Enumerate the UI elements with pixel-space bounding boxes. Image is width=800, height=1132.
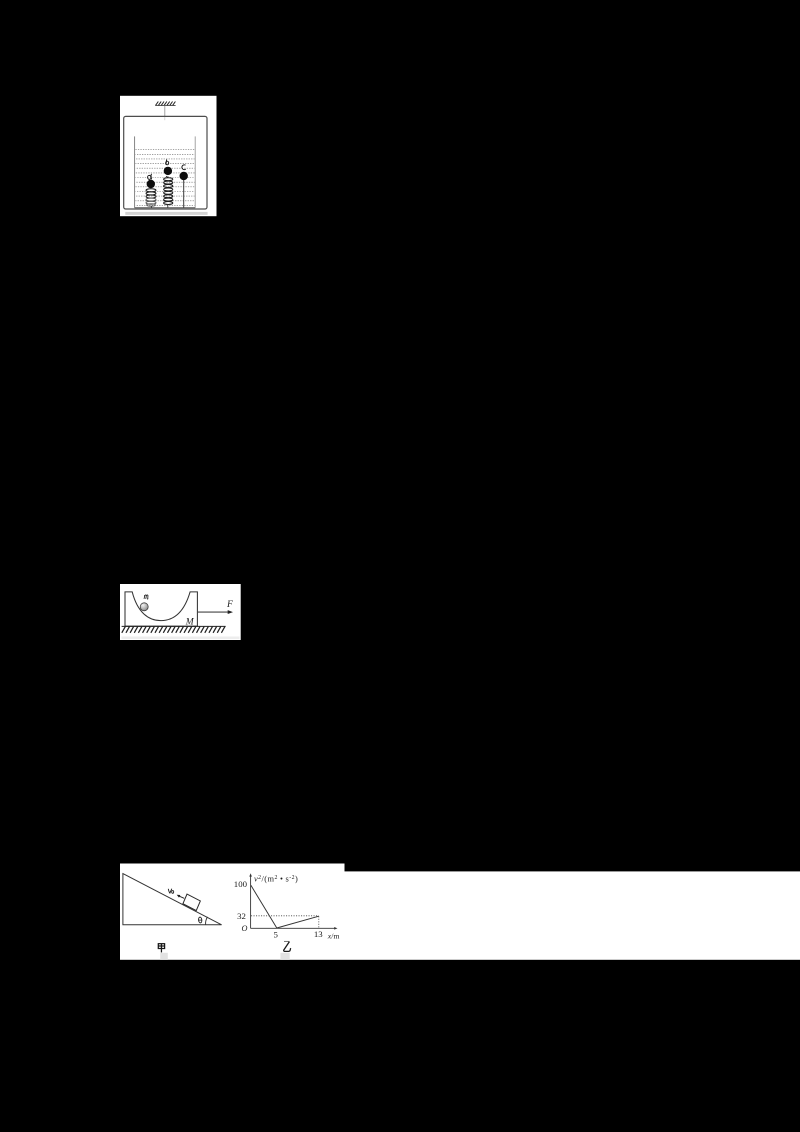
- svg-text:32: 32: [237, 911, 246, 921]
- svg-text:M: M: [185, 617, 195, 627]
- label theta: [198, 917, 202, 923]
- ground hatching fig2: [122, 627, 225, 633]
- faint strip fig2: [122, 637, 240, 640]
- label b: [166, 159, 169, 165]
- incline triangle: [123, 874, 222, 925]
- spring b: [164, 176, 173, 204]
- gray tab under yi: [280, 953, 289, 960]
- liquid dotted lines: [135, 150, 194, 206]
- ball c: [180, 172, 188, 180]
- graph line 1: [251, 885, 277, 928]
- outer container: [124, 116, 207, 209]
- angle arc: [206, 917, 208, 925]
- ceiling line: [155, 105, 175, 107]
- dotted level 32: [251, 915, 319, 917]
- svg-text:x/m: x/m: [327, 931, 340, 940]
- ball b: [164, 167, 172, 175]
- label v0: [168, 889, 173, 894]
- ball a: [147, 180, 155, 188]
- label a: [147, 174, 152, 180]
- y axis: [250, 875, 252, 928]
- figure 3 white strip: [120, 864, 800, 960]
- gray tab under jia: [160, 953, 168, 960]
- svg-text:F: F: [226, 600, 233, 610]
- inner wall right: [194, 136, 196, 207]
- label jia (CJK drawn): [158, 944, 164, 953]
- svg-text:O: O: [241, 924, 247, 933]
- ground line fig2: [122, 625, 226, 627]
- graph line 2: [277, 916, 319, 928]
- block on incline: [183, 894, 200, 911]
- force F arrow: [198, 611, 230, 613]
- figure 1 white panel: [120, 96, 217, 216]
- inner wall left: [134, 136, 136, 207]
- v0 arrow: [179, 896, 184, 898]
- svg-text:100: 100: [234, 879, 248, 889]
- block M: [125, 592, 197, 626]
- label m: [144, 595, 148, 599]
- svg-text:13: 13: [314, 929, 323, 939]
- figure 2 white panel: [120, 584, 241, 640]
- ceiling hatching: [156, 102, 176, 106]
- label c: [182, 165, 186, 170]
- label yi (CJK drawn): [284, 941, 291, 951]
- spring a: [146, 189, 156, 206]
- svg-text:5: 5: [273, 930, 278, 940]
- rod c: [183, 180, 185, 208]
- floor line: [135, 207, 196, 209]
- gray shadow strip fig1: [125, 212, 207, 215]
- hanging rod: [164, 106, 166, 117]
- dotted vertical at 13: [318, 916, 320, 928]
- x axis: [251, 927, 336, 929]
- black notch top-right: [345, 864, 800, 872]
